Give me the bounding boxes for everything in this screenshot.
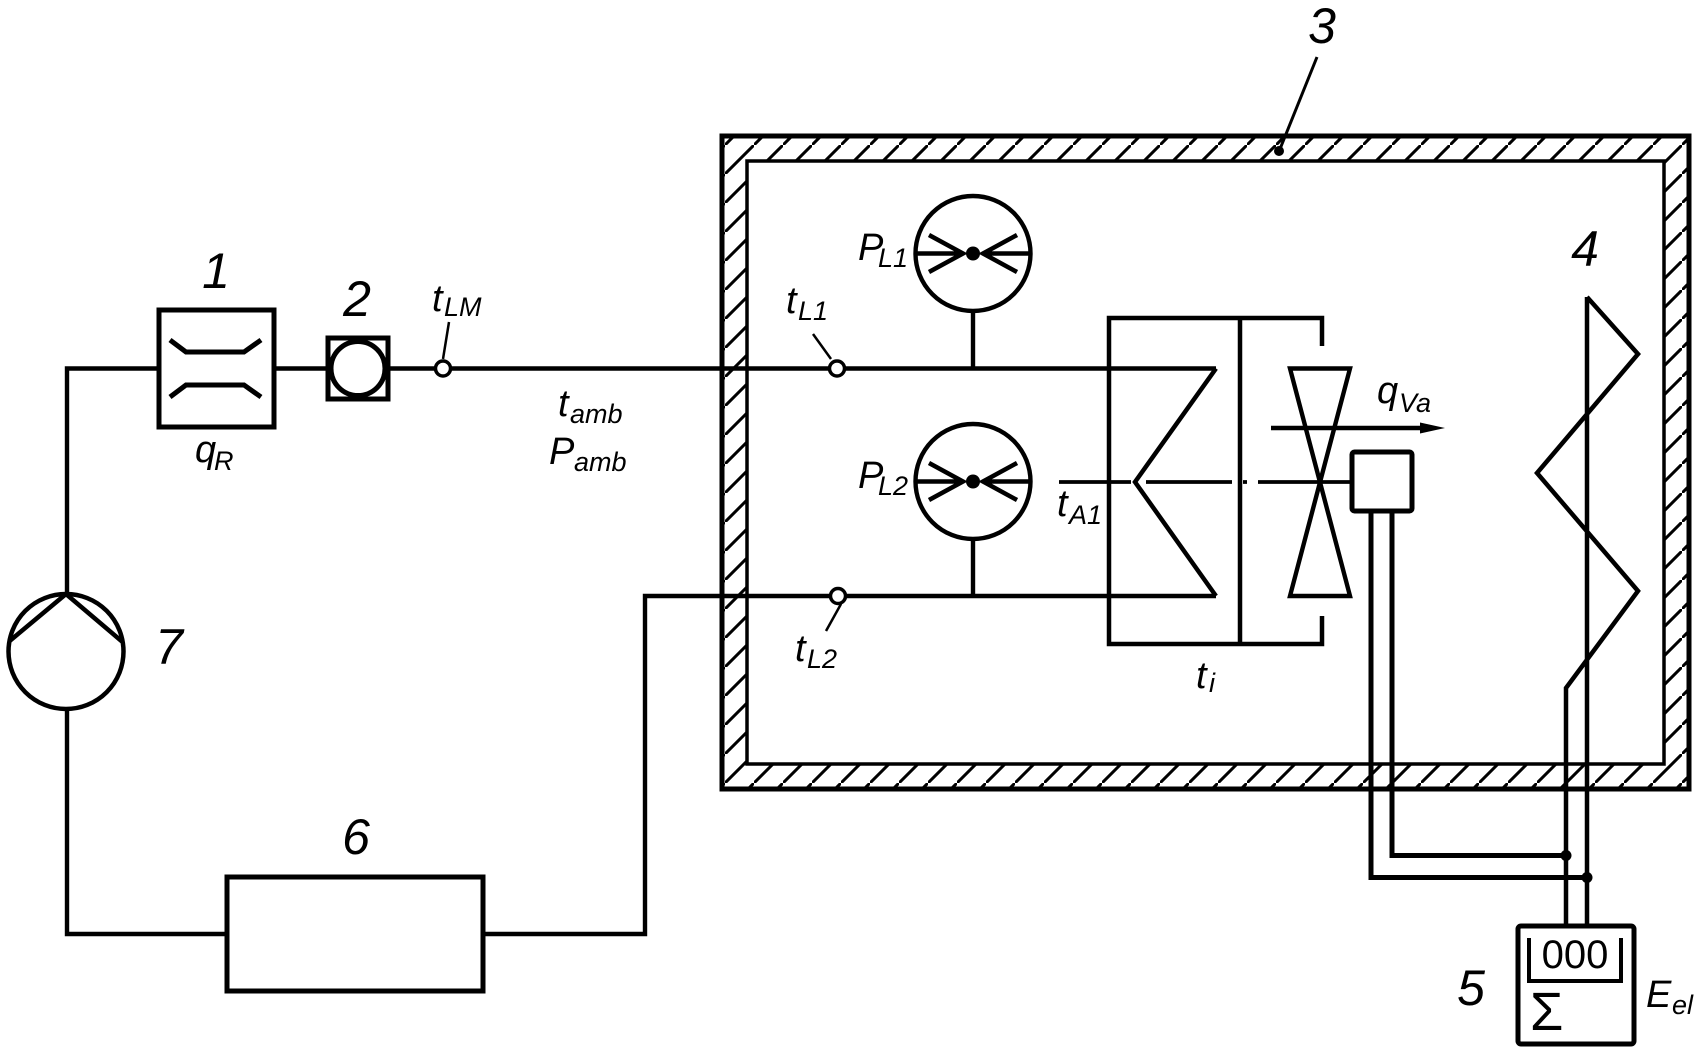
svg-text:4: 4 [1571, 221, 1599, 277]
svg-text:3: 3 [1308, 0, 1336, 54]
svg-text:Va: Va [1399, 388, 1431, 418]
svg-text:5: 5 [1457, 960, 1485, 1016]
svg-text:L1: L1 [878, 243, 908, 273]
svg-text:i: i [1209, 668, 1216, 698]
svg-text:000: 000 [1542, 933, 1609, 977]
svg-text:q: q [1377, 370, 1398, 412]
svg-text:t: t [432, 278, 444, 320]
svg-text:amb: amb [570, 399, 623, 429]
svg-text:t: t [1057, 483, 1069, 525]
svg-text:7: 7 [155, 619, 185, 675]
svg-text:amb: amb [574, 447, 627, 477]
svg-text:el: el [1672, 990, 1694, 1020]
svg-text:L2: L2 [878, 471, 908, 501]
svg-text:E: E [1646, 974, 1672, 1016]
svg-text:t: t [786, 280, 798, 322]
svg-text:1: 1 [202, 243, 230, 299]
svg-text:LM: LM [444, 292, 482, 322]
svg-text:L2: L2 [807, 644, 837, 674]
svg-text:L1: L1 [798, 296, 828, 326]
svg-text:P: P [549, 431, 575, 473]
svg-text:R: R [214, 446, 234, 476]
svg-text:2: 2 [342, 271, 371, 327]
svg-text:t: t [1196, 655, 1208, 697]
svg-text:6: 6 [342, 809, 370, 865]
svg-text:Σ: Σ [1530, 982, 1563, 1042]
svg-text:t: t [558, 383, 570, 425]
svg-text:A1: A1 [1067, 500, 1102, 530]
svg-text:t: t [795, 628, 807, 670]
svg-text:q: q [195, 429, 216, 471]
